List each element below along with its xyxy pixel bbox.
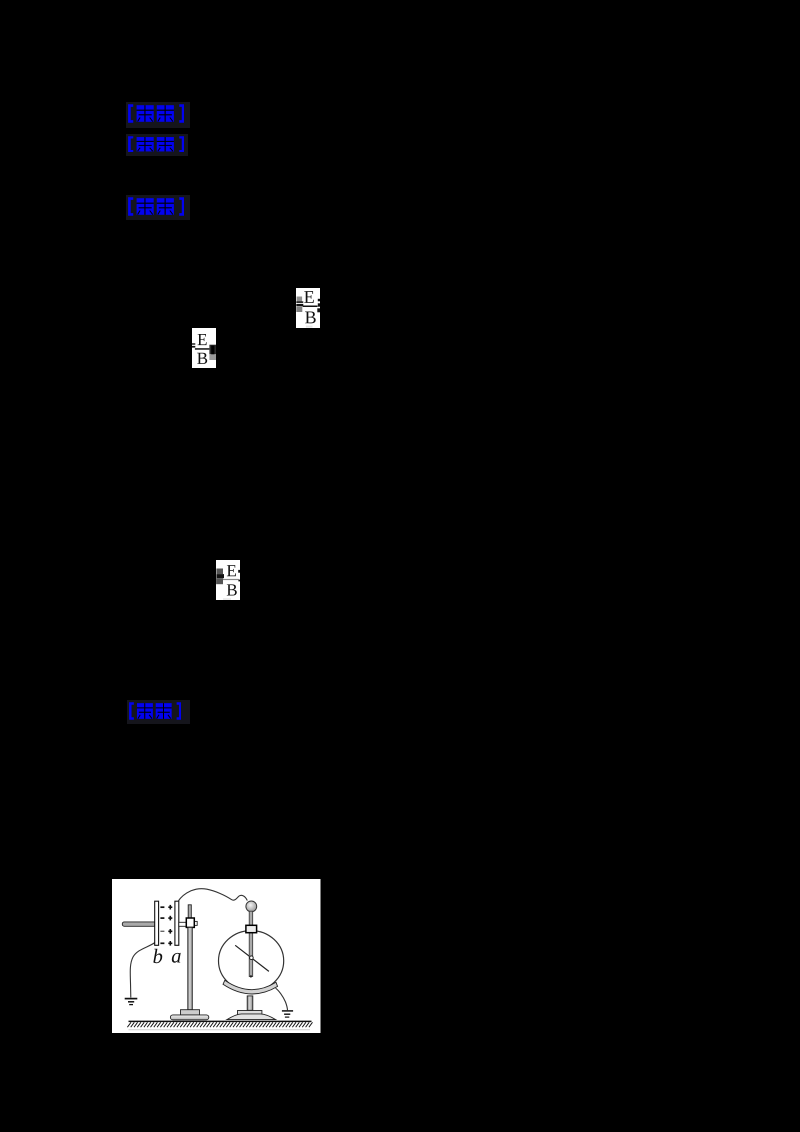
label 考点 (blue) [128, 104, 185, 123]
wire from plate b to ground (left) [130, 943, 155, 998]
plate b [155, 901, 159, 945]
rod tip dot [250, 975, 252, 977]
stand: upper rod above clamp [188, 905, 191, 918]
clamp nub right [195, 921, 198, 925]
plus charges [168, 905, 172, 946]
label halo 2 [126, 134, 188, 156]
pivot [250, 956, 254, 960]
link from plate a to clamp [179, 922, 187, 926]
plate a [175, 901, 179, 945]
electroscope base flare [227, 1014, 276, 1020]
stand step block [181, 1010, 200, 1015]
electroscope rod [249, 911, 253, 976]
label 点评 (blue) [129, 702, 182, 720]
electroscope base plate [238, 1011, 262, 1015]
electroscope ball [246, 901, 257, 912]
apparatus figure [112, 879, 321, 1033]
horizontal support rod at left [122, 922, 155, 926]
formula patch 1 : = E/B [296, 288, 321, 329]
needle [235, 945, 269, 971]
label 答案 (blue) [128, 136, 185, 153]
electroscope case circle [219, 931, 284, 992]
wire from cradle to right ground [276, 988, 288, 1010]
figure white background [112, 879, 321, 1033]
faint lower line [129, 1029, 311, 1031]
cradle (saddle) [223, 980, 278, 994]
label b [153, 949, 162, 963]
formula patch 2 [192, 328, 216, 368]
formula patch 3 [216, 560, 240, 600]
clamp box [186, 918, 194, 927]
minus charges [160, 907, 164, 943]
label halo 1 [126, 102, 190, 128]
stand: lower rod [188, 927, 193, 1009]
ground line with hatching [129, 1020, 312, 1022]
ground symbol right [282, 1010, 293, 1012]
stand base [170, 1015, 208, 1020]
electroscope stem [247, 996, 253, 1010]
label halo 3 [126, 195, 190, 220]
label a [172, 953, 181, 963]
label halo 4 [127, 700, 190, 724]
label 解析 (blue) [128, 197, 185, 216]
ground symbol left [125, 998, 138, 1000]
wire from plate a over to electroscope ball [178, 889, 247, 902]
collar [246, 925, 257, 932]
